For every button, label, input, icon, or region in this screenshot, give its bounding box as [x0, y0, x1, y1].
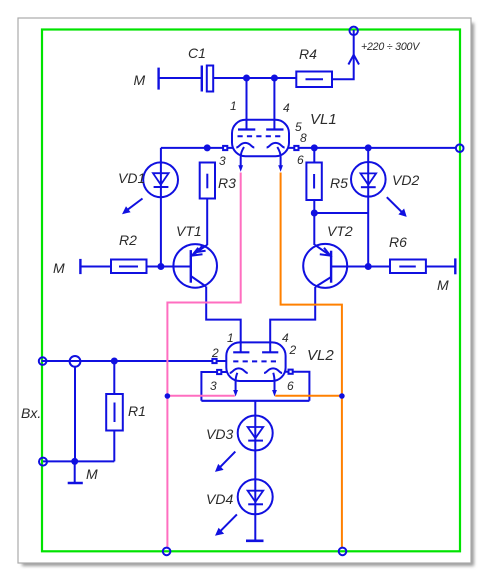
resistor R3 — [200, 163, 215, 199]
transistor VT1 — [173, 244, 217, 288]
wire VT1 emitter to VL2 pin1 — [206, 287, 241, 353]
svg-text:4: 4 — [282, 331, 289, 345]
VD3 emission arrow — [215, 452, 235, 472]
junction pin 1 — [244, 76, 249, 81]
label R1 — [128, 403, 146, 419]
junction pink — [165, 393, 171, 399]
tube VL1 envelope — [232, 120, 289, 157]
orange heater branch to VL2 — [275, 395, 342, 397]
svg-text:VL1: VL1 — [310, 111, 337, 128]
label pin 6 VL2 — [287, 379, 294, 393]
svg-text:M: M — [53, 260, 65, 276]
svg-text:R4: R4 — [299, 46, 317, 62]
VL1 heater lead left with arrow — [238, 147, 244, 172]
label R4 — [299, 46, 317, 62]
svg-text:VD4: VD4 — [206, 491, 233, 507]
svg-text:1: 1 — [227, 331, 234, 345]
junction R5 bottom — [312, 211, 317, 216]
svg-text:2: 2 — [211, 346, 219, 360]
svg-text:VD2: VD2 — [392, 172, 419, 188]
VD2 emission arrow — [387, 197, 407, 217]
wire R6 to M — [426, 266, 455, 268]
wire M to C1 — [159, 77, 201, 79]
svg-text:3: 3 — [210, 379, 217, 393]
junction VD2 bottom — [366, 264, 371, 269]
label M ground — [86, 466, 98, 482]
label supply voltage — [361, 41, 420, 53]
label pin 3 VL1 — [219, 154, 226, 168]
wire VT2 base to R6 — [331, 266, 390, 268]
label pin 4 VL2 — [282, 331, 289, 345]
orange heater wire right — [281, 173, 342, 548]
transistor VT2 — [303, 244, 347, 288]
svg-text:VL2: VL2 — [307, 347, 334, 364]
VL2 anode plate left — [233, 351, 249, 353]
junction VD1 bottom — [158, 264, 163, 269]
label M right — [437, 277, 449, 293]
chain end bar — [246, 539, 264, 542]
wire C1 to R4 — [213, 77, 296, 79]
wire input Bx — [42, 360, 227, 362]
supply arrow — [348, 55, 359, 65]
terminal input top — [39, 357, 47, 365]
terminal orange bottom — [339, 548, 347, 556]
label pin 6 VL1 — [297, 153, 304, 167]
svg-text:R6: R6 — [389, 234, 407, 250]
VL2 heater lead right with arrow — [272, 373, 277, 397]
label pin 4 VL1 — [283, 101, 290, 115]
wire bottom input common — [43, 460, 114, 462]
junction VD2 top — [366, 145, 371, 150]
label VD1 — [118, 170, 145, 186]
svg-text:M: M — [437, 277, 449, 293]
svg-text:VD1: VD1 — [118, 170, 145, 186]
VL2 grid dashed — [233, 360, 280, 362]
diode VD1 — [143, 162, 178, 197]
wire bus to VD3 VD4 chain — [254, 401, 256, 541]
VL2 heater lead left with arrow — [233, 373, 238, 397]
wire VD2 branch vertical — [367, 148, 369, 267]
pin marker 3 — [223, 146, 227, 150]
label pin 5 VL1 — [295, 120, 302, 134]
wire R3 bottom to VT1 — [206, 199, 208, 246]
resistor R1 — [106, 394, 123, 431]
label VT1 — [176, 223, 202, 239]
VL1 anode plate right — [266, 128, 283, 130]
label Bx input — [21, 405, 41, 421]
label M top — [134, 72, 146, 88]
svg-text:6: 6 — [297, 153, 304, 167]
VL1 cathode left — [236, 143, 254, 148]
svg-text:VT1: VT1 — [176, 223, 202, 239]
diode VD4 — [238, 479, 273, 514]
ground symbol — [68, 461, 83, 483]
wire R1 top lead — [113, 361, 115, 394]
terminal right border — [456, 144, 464, 152]
wire R5 bottom — [313, 200, 315, 213]
wire R2 to VT1 base — [147, 266, 191, 268]
VL2 cathode right — [264, 368, 282, 373]
terminal input bottom — [39, 458, 47, 466]
wire R1 bottom lead — [113, 431, 115, 462]
wire VL1 pin3 left — [161, 147, 234, 149]
wire VL2 pin3 — [201, 372, 227, 401]
label pin 3 VL2 — [210, 379, 217, 393]
label pin 1 VL1 — [230, 99, 237, 113]
diode VD2 — [351, 162, 386, 197]
label R6 — [389, 234, 407, 250]
resistor R5 — [306, 163, 321, 201]
label R3 — [218, 175, 236, 191]
capacitor C1 — [202, 66, 213, 92]
wire cathode bus — [201, 400, 309, 402]
VL1 grid dashed — [238, 135, 284, 137]
label R5 — [330, 175, 348, 191]
svg-text:+220 ÷ 300V: +220 ÷ 300V — [361, 41, 420, 53]
svg-text:R5: R5 — [330, 175, 348, 191]
wire VL2 pin6 — [285, 372, 310, 401]
node M left end bar — [79, 259, 81, 274]
label pin 1 VL2 — [227, 331, 234, 345]
terminal supply — [350, 27, 358, 35]
resistor R4 — [296, 72, 332, 88]
diode VD3 — [238, 416, 273, 451]
svg-text:2: 2 — [289, 343, 297, 357]
wire VL1 pin8 right — [288, 147, 456, 149]
pink heater wire left — [167, 173, 240, 548]
junction R1 top — [112, 359, 117, 364]
svg-text:Bx.: Bx. — [21, 405, 41, 421]
svg-text:3: 3 — [219, 154, 226, 168]
resistor R6 — [390, 260, 426, 274]
resistor R2 — [111, 260, 147, 274]
pin marker 8 — [294, 146, 298, 150]
VD4 emission arrow — [215, 514, 237, 535]
svg-text:R2: R2 — [119, 232, 137, 248]
VD1 emission arrow — [122, 199, 143, 215]
svg-text:VT2: VT2 — [327, 223, 353, 239]
wire anode lead pin 1 — [246, 78, 248, 130]
pin marker grid 2 — [212, 359, 216, 363]
junction pin 4 — [272, 76, 277, 81]
svg-text:C1: C1 — [188, 45, 206, 61]
svg-text:M: M — [86, 466, 98, 482]
wire M to R2 — [80, 266, 111, 268]
VL1 cathode right — [267, 143, 285, 148]
terminal pink bottom — [163, 548, 171, 556]
tube VL2 envelope — [226, 342, 285, 381]
wire R4 to supply — [332, 30, 354, 79]
VL1 anode plate left — [238, 128, 255, 130]
pin marker 6 — [289, 370, 293, 374]
svg-text:R1: R1 — [128, 403, 146, 419]
green frame border — [42, 30, 460, 552]
label C1 — [188, 45, 206, 61]
label VD4 — [206, 491, 233, 507]
VL2 cathode left — [230, 368, 248, 373]
svg-text:M: M — [134, 72, 146, 88]
pin marker 3 — [217, 370, 221, 374]
node M top-left end bar — [157, 68, 159, 90]
svg-text:6: 6 — [287, 379, 294, 393]
wire anode lead pin 4 — [273, 78, 275, 130]
label VD3 — [206, 426, 233, 442]
pink heater branch to VL2 — [167, 395, 234, 397]
svg-text:8: 8 — [300, 131, 307, 145]
label pin 8 VL1 — [300, 131, 307, 145]
wire VT2 emitter to VL2 pin4 — [270, 287, 315, 352]
label VL2 — [307, 347, 334, 364]
wire junction to VD2 branch — [314, 212, 368, 214]
junction R5 top — [312, 145, 317, 150]
svg-text:VD3: VD3 — [206, 426, 233, 442]
node M right end bar — [454, 258, 456, 274]
svg-text:1: 1 — [230, 99, 237, 113]
label R2 — [119, 232, 137, 248]
label VD2 — [392, 172, 419, 188]
wire R5 top — [313, 148, 315, 163]
junction orange — [339, 393, 345, 399]
VL2 anode plate right — [262, 351, 278, 353]
label VL1 — [310, 111, 337, 128]
junction R3 top — [205, 145, 210, 150]
label pin 2 VL2 right — [289, 343, 297, 357]
label pin 2 VL2 left — [211, 346, 219, 360]
junction ground — [72, 459, 77, 464]
input connector circle — [70, 356, 81, 367]
wire VD1 branch vertical — [160, 148, 162, 267]
VL1 heater lead right with arrow — [277, 147, 283, 172]
svg-text:R3: R3 — [218, 175, 236, 191]
label VT2 — [327, 223, 353, 239]
svg-text:4: 4 — [283, 101, 290, 115]
wire VT2 collector — [313, 213, 315, 245]
label M left — [53, 260, 65, 276]
wire connector down — [74, 367, 76, 462]
